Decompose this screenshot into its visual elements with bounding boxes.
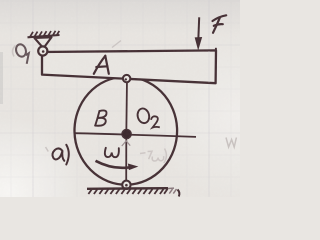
pin O1 xyxy=(38,46,47,55)
label A xyxy=(94,56,109,74)
label B xyxy=(95,110,106,125)
label F xyxy=(213,15,227,33)
bottom pin of disk xyxy=(122,181,130,189)
beam corner overshoot ticks xyxy=(215,48,217,52)
ghost ring left of O1 xyxy=(13,46,16,57)
omega rotation arrow arc xyxy=(96,161,137,170)
label omega (angular velocity) xyxy=(105,148,119,157)
beam AB (link O1 to right end), paper-filled to sit over disk xyxy=(42,50,216,83)
ground hatching under disk xyxy=(87,188,177,194)
label alpha) xyxy=(52,145,68,165)
center hub O2 xyxy=(122,129,132,146)
grid segment inside beam xyxy=(208,51,210,83)
stray pen flick bottom right xyxy=(178,190,180,197)
pin at A (top of disk) xyxy=(123,75,130,82)
ghost flick left of alpha xyxy=(46,147,49,152)
paper background xyxy=(0,0,240,197)
faint pencil diagonal above beam xyxy=(112,41,121,48)
fixed support at O1: hatch band xyxy=(28,31,60,38)
faint grid xyxy=(0,0,240,197)
label O1 xyxy=(14,43,28,64)
paper texture noise xyxy=(0,0,240,197)
ghost W at right edge xyxy=(226,138,236,148)
disk (big circle) xyxy=(73,75,178,186)
label O2 xyxy=(136,107,160,127)
wire: horizontal line through O2 xyxy=(75,133,197,137)
wire: vertical diameter line through disk xyxy=(125,79,128,185)
support triangle xyxy=(35,37,52,48)
force arrow F xyxy=(195,17,201,49)
ghost bleed-through marks (omega arrow from reverse page) xyxy=(140,149,166,164)
